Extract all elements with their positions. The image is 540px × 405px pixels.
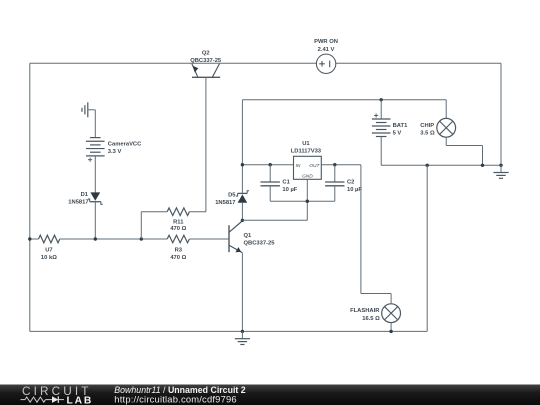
svg-text:10 µF: 10 µF <box>282 187 297 193</box>
svg-text:470 Ω: 470 Ω <box>170 226 186 232</box>
node collector/D5 <box>241 219 244 222</box>
footer logo resistor-diode <box>25 397 46 402</box>
lamp FLASHAIR 16.5ohm <box>382 304 401 323</box>
ground (bottom center) <box>241 331 243 338</box>
svg-text:D1: D1 <box>81 192 89 198</box>
wire R11 branch <box>140 212 142 239</box>
wire collector node to GND pin <box>242 219 307 221</box>
svg-text:LAB: LAB <box>67 396 94 405</box>
wire D5 to collector node <box>241 203 243 221</box>
svg-text:U1: U1 <box>302 141 310 147</box>
wire ground rail <box>381 164 501 166</box>
svg-text:CHIP: CHIP <box>420 123 434 129</box>
svg-text:QBC337-25: QBC337-25 <box>244 240 276 246</box>
node U7-left junction <box>28 237 31 240</box>
wire battery to D1 <box>94 156 96 193</box>
wire to CHIP lamp <box>445 100 447 119</box>
wire OUT row <box>321 164 361 166</box>
svg-text:1N5817: 1N5817 <box>215 200 235 206</box>
svg-text:R3: R3 <box>175 248 183 254</box>
svg-text:PWR ON: PWR ON <box>314 39 338 45</box>
svg-text:10 µF: 10 µF <box>347 187 362 193</box>
wire: top rail right of meter <box>336 62 501 64</box>
node GND rail <box>306 200 309 203</box>
svg-text:D5: D5 <box>228 193 236 199</box>
svg-text:IN: IN <box>296 163 301 169</box>
node R11 branch junction <box>140 237 143 240</box>
svg-text:FLASHAIR: FLASHAIR <box>350 308 380 314</box>
wire bottom rail <box>30 330 427 332</box>
node FLASHAIR bottom <box>389 330 392 333</box>
svg-text:5 V: 5 V <box>393 131 402 137</box>
wire top rail corner down to IN row <box>241 100 243 194</box>
svg-text:C1: C1 <box>282 180 290 186</box>
battery CameraVCC 3.3V <box>90 137 101 139</box>
wire C1-GND-C2 bottom rail <box>270 200 335 202</box>
wire BAT1 bottom lead <box>380 137 382 166</box>
wire ground to battery <box>88 109 96 111</box>
resistor U7 10k <box>30 238 39 240</box>
wire right column down <box>426 165 428 331</box>
svg-text:Q2: Q2 <box>202 51 210 57</box>
capacitor C2 10uF <box>334 165 336 182</box>
diode D1 1N5817 (pointing down) <box>90 192 100 200</box>
svg-text:16.5 Ω: 16.5 Ω <box>362 316 380 322</box>
node FLASHAIR column <box>426 164 429 167</box>
svg-text:U7: U7 <box>45 248 52 254</box>
wire U1 GND pin <box>306 179 308 201</box>
wire R11 to Q2 base lead <box>189 211 206 213</box>
ground (rotated, left) <box>87 102 89 117</box>
ground (right) <box>500 165 502 172</box>
resistor R3 470 <box>167 235 189 243</box>
svg-text:OUT: OUT <box>309 163 320 169</box>
svg-text:1N5817: 1N5817 <box>68 199 88 205</box>
wire: top rail <box>30 62 317 64</box>
node bottom ground <box>241 330 244 333</box>
resistor R11 470 <box>167 208 189 216</box>
capacitor C1 10uF <box>269 165 271 182</box>
wire BAT1 top lead <box>380 100 382 119</box>
svg-text:CameraVCC: CameraVCC <box>108 142 142 148</box>
svg-text:Q1: Q1 <box>244 233 253 239</box>
node CHIP branch <box>481 164 484 167</box>
diode D5 1N5817 (pointing up) <box>238 194 248 202</box>
node IN column <box>241 163 244 166</box>
wire U7 to R3 <box>60 238 167 240</box>
lamp CHIP 3.5ohm <box>437 118 456 137</box>
meter PWR ON <box>316 54 335 73</box>
svg-text:3.3 V: 3.3 V <box>108 149 122 155</box>
wire D1 to main row <box>94 202 96 239</box>
wire: right vertical <box>500 63 502 165</box>
svg-text:C2: C2 <box>347 180 354 186</box>
svg-text:2.41 V: 2.41 V <box>318 47 335 53</box>
node C1 top <box>269 163 272 166</box>
transistor Q2 QBC337-25 <box>192 76 220 78</box>
wire FLASHAIR bottom <box>390 323 392 332</box>
node BAT1 top <box>380 98 383 101</box>
svg-text:10 kΩ: 10 kΩ <box>41 255 57 261</box>
wire IN row <box>242 164 293 166</box>
svg-text:http://circuitlab.com/cdf9796: http://circuitlab.com/cdf9796 <box>114 394 237 405</box>
wire: left vertical of outer loop <box>29 63 31 331</box>
svg-text:QBC337-25: QBC337-25 <box>190 58 222 64</box>
wire Q1 emitter down <box>241 253 243 332</box>
wire IN-column top to battery/lamp <box>242 99 446 101</box>
transistor Q1 QBC337-25 <box>228 225 230 252</box>
svg-text:470 Ω: 470 Ω <box>170 255 186 261</box>
svg-text:R11: R11 <box>173 220 184 226</box>
svg-text:LD1117V33: LD1117V33 <box>291 148 322 154</box>
svg-text:BAT1: BAT1 <box>393 123 408 129</box>
op-amp U1 LD1117V33 box <box>294 156 322 179</box>
wire CHIP bottom <box>445 137 447 145</box>
svg-text:GND: GND <box>302 174 313 180</box>
node right ground <box>499 164 502 167</box>
battery BAT1 5V <box>372 118 391 120</box>
svg-text:3.5 Ω: 3.5 Ω <box>420 131 435 137</box>
node C2 top <box>333 163 336 166</box>
wire OUT to FLASHAIR top <box>360 165 362 294</box>
node D1 junction <box>94 237 97 240</box>
